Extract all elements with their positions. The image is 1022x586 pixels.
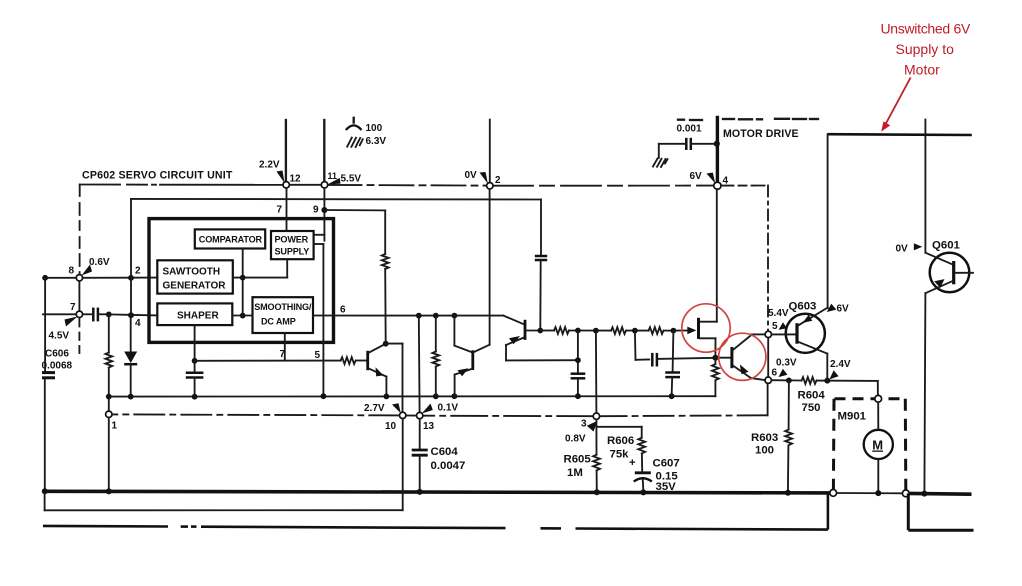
svg-text:1M: 1M: [567, 467, 583, 479]
node terminal M901 right on bus: [902, 490, 909, 497]
label R603 100: [751, 432, 778, 457]
svg-text:Motor: Motor: [904, 62, 940, 78]
svg-text:C604: C604: [431, 446, 459, 458]
svg-text:2: 2: [135, 266, 141, 277]
transistor Q601 (PNP in circle): [924, 120, 973, 495]
svg-text:C607: C607: [653, 458, 680, 470]
node 6 pin of CP602: [765, 377, 771, 383]
COMPARATOR box: [195, 229, 265, 248]
resistor (collector load of Q1): [382, 254, 389, 344]
wire: 0V feed vertical to pin 2: [489, 120, 491, 183]
wire: SAWTOOTH right to POWER SUPPLY bottom: [233, 259, 287, 277]
SMOOTHING / DC AMP box: [253, 297, 314, 333]
cut-off reference text at top edge: [678, 119, 818, 120]
svg-text:2.2V: 2.2V: [259, 160, 280, 171]
svg-text:5.4V: 5.4V: [768, 308, 789, 319]
label 0.3V 6 with arrow at pin 6: [772, 358, 797, 379]
svg-text:4: 4: [723, 176, 729, 187]
svg-text:GENERATOR: GENERATOR: [163, 281, 227, 292]
diode (cathode down): [124, 352, 137, 397]
wire: SHAPER right to SMOOTHING left: [232, 315, 252, 317]
wire: emitter bus y=396: [109, 395, 716, 397]
svg-text:5: 5: [772, 321, 778, 332]
label 100 6.3V: [366, 123, 387, 147]
svg-text:SHAPER: SHAPER: [177, 311, 219, 322]
transistor Q2 (bar style): [454, 316, 489, 397]
label 5 (IC bottom pin): [315, 350, 321, 361]
resistor R603 100: [785, 380, 792, 492]
wire: internal line to Q1 base with resistor: [195, 357, 367, 364]
svg-text:0V: 0V: [896, 244, 909, 255]
label C604 0.0047: [431, 446, 466, 472]
red circle highlight on Q5: [719, 333, 766, 380]
label 6V with arrow at pin 4: [690, 171, 729, 187]
red annotation arrow: [881, 78, 910, 132]
label 1: [112, 421, 118, 432]
svg-text:0.001: 0.001: [677, 124, 702, 135]
wire: 0.6V bus drop at x541 with capacitor: [535, 200, 547, 331]
label Q603: [789, 301, 817, 313]
svg-text:2.7V: 2.7V: [364, 403, 385, 414]
resistor (vertical, below pin7 cap junction): [105, 314, 112, 396]
junction dots on ground bus: [42, 488, 928, 496]
label 5.4V 5 with arrow at pin 5: [768, 308, 789, 332]
svg-text:1: 1: [112, 421, 118, 432]
svg-text:6.3V: 6.3V: [366, 136, 387, 147]
svg-text:+: +: [629, 457, 636, 469]
label Q601: [932, 240, 961, 252]
node 8 pin of CP602: [76, 275, 82, 281]
node 3 pin of CP602: [593, 413, 599, 419]
wire: node 7 line to the left: [43, 313, 76, 315]
IC block outline: [149, 219, 334, 343]
label C606 0.0068: [42, 349, 73, 372]
svg-text:2.4V: 2.4V: [830, 359, 851, 370]
svg-text:6V: 6V: [837, 304, 850, 315]
capacitor (series, at pin 7 line): [83, 308, 112, 322]
label 0V with arrow at Q601: [896, 243, 923, 254]
svg-text:100: 100: [366, 123, 383, 134]
svg-text:Unswitched 6V: Unswitched 6V: [881, 21, 971, 37]
wire: R605 vertical from RC chain to node 3: [595, 331, 598, 414]
wire: 6V thick feed vertical to pin 4: [716, 118, 719, 183]
label 8 0.6V with arrow at pin 8: [69, 257, 110, 277]
wire: RC filter chain line y=330.5: [537, 327, 676, 334]
svg-text:M: M: [872, 438, 883, 453]
svg-text:COMPARATOR: COMPARATOR: [199, 235, 263, 245]
node 1 pin of CP602: [106, 397, 112, 492]
svg-text:6V: 6V: [690, 171, 703, 182]
svg-text:0.3V: 0.3V: [776, 358, 797, 369]
svg-text:C606: C606: [45, 349, 69, 360]
node 11 pin of CP602: [321, 182, 327, 188]
wire: IC pin 7 from node 12 down to POWER SUPPLY: [286, 188, 288, 231]
label C607 0.15 35V: [653, 458, 680, 494]
CP602 boundary left edge (dashed, through pins 8 and 7): [78, 185, 80, 354]
ground bus A (thick bottom bus): [43, 491, 972, 494]
wire: supply feed vertical to pin 12: [285, 120, 287, 182]
POWER SUPPLY box: [271, 231, 314, 259]
wire: pin 5 vertical from POWER stub down through IC bottom: [322, 244, 324, 396]
svg-text:M901: M901: [838, 411, 867, 423]
label 6V with arrow at Q603 collector: [827, 304, 849, 315]
svg-text:0.0047: 0.0047: [431, 460, 466, 472]
wire: return line y=510 from node 10: [45, 419, 403, 511]
red circle highlight on Q4: [682, 304, 730, 352]
wire: IC pin 9 from node 11 down, junction: [321, 188, 327, 241]
capacitor 100uF 6.3V to ground (symbol near pin 11): [346, 118, 363, 147]
svg-text:9: 9: [313, 205, 319, 216]
node 2 pin of CP602: [487, 183, 493, 189]
svg-text:R605: R605: [564, 454, 592, 466]
svg-text:MOTOR DRIVE: MOTOR DRIVE: [723, 128, 799, 140]
capacitor (parallel with 3rd resistor): [635, 331, 715, 367]
wire: SMOOTHING bottom pin 7 stub: [284, 333, 286, 361]
transistor Q3 (emitter follower, bar style): [503, 316, 578, 361]
node 12 pin of CP602: [283, 182, 289, 188]
transistor Q1 (bar style NPN): [368, 341, 389, 397]
label CP602 SERVO CIRCUIT UNIT: [82, 170, 233, 182]
label M901: [838, 411, 867, 423]
svg-text:0.1V: 0.1V: [438, 403, 459, 414]
wire: POWER SUPPLY right stubs to pin 9 vertical: [314, 235, 325, 244]
node 4 pin of CP602: [714, 182, 721, 189]
capacitor (x672 to emitter bus): [665, 331, 680, 397]
wire: COMPARATOR to SAWTOOTH/SHAPER internal vertical: [240, 249, 246, 319]
svg-text:SAWTOOTH: SAWTOOTH: [163, 267, 221, 278]
capacitor C607 0.15 35V electrolytic: [629, 457, 652, 493]
wire: node 8 to junction at x45: [42, 275, 76, 281]
label 2.7V with arrow at pin 10: [364, 403, 401, 432]
label 2.4V with arrow: [829, 359, 851, 379]
svg-text:R604: R604: [798, 390, 826, 402]
label 6 (IC right pin): [340, 305, 346, 316]
wire: Q2 collector vertical to node 2: [489, 189, 491, 345]
svg-text:5.5V: 5.5V: [341, 174, 362, 185]
svg-text:6: 6: [340, 305, 346, 316]
node terminal on M901 top edge: [875, 395, 882, 402]
node 10 pin of CP602: [400, 412, 406, 418]
svg-text:7: 7: [70, 302, 76, 313]
wire: SHAPER bottom stub: [192, 325, 198, 372]
svg-text:4.5V: 4.5V: [49, 331, 70, 342]
label 7 (IC bottom pin): [280, 349, 286, 360]
label R605 1M: [564, 454, 592, 480]
svg-text:4: 4: [135, 318, 141, 329]
svg-text:8: 8: [69, 266, 75, 277]
svg-text:DC AMP: DC AMP: [261, 317, 296, 327]
svg-text:Supply to: Supply to: [896, 41, 955, 57]
label 2.2V with arrow at pin 12: [259, 160, 301, 185]
resistor (under Q4, to emitter bus): [712, 358, 719, 397]
ground for 0.001 capacitor: [653, 144, 668, 167]
wire: bottom-right step from bus: [908, 493, 973, 530]
transistor Q5 (bar style NPN): [715, 334, 765, 380]
wire: pin 2 line from node 8 into IC: [83, 275, 158, 281]
wire: pin 9 supply rail to collector resistor: [324, 210, 385, 254]
resistor R606 75k: [598, 427, 645, 472]
svg-text:5: 5: [315, 350, 321, 361]
M901 dashed enclosure: [833, 399, 905, 491]
svg-text:7: 7: [280, 349, 286, 360]
label 0.001: [677, 124, 702, 135]
label 2 (IC pin): [135, 266, 141, 277]
label 11 5.5V with arrow at pin 11: [327, 171, 361, 185]
label R604 750: [798, 390, 826, 415]
label 7 4.5V with arrow at pin 7: [49, 302, 78, 342]
wire: 0.6V bus from pin2 corner to the right: [131, 198, 541, 201]
svg-text:6: 6: [772, 368, 778, 379]
svg-text:11: 11: [328, 171, 338, 181]
svg-text:POWER: POWER: [275, 235, 309, 245]
svg-text:R603: R603: [751, 432, 778, 444]
SHAPER box: [157, 303, 232, 325]
capacitor (under SHAPER stub): [186, 373, 204, 397]
capacitor C606 0.0068: [42, 373, 55, 492]
svg-text:10: 10: [385, 421, 397, 432]
label 4 (IC pin): [135, 318, 141, 329]
wire: node 6 line with R604 to motor: [771, 377, 878, 395]
svg-text:13: 13: [423, 421, 435, 432]
svg-text:0V: 0V: [465, 170, 478, 181]
resistor (bias, x436): [432, 316, 439, 397]
label MOTOR DRIVE: [723, 128, 799, 140]
transistor Q4 (drive device, bar style with base arrow): [673, 189, 718, 361]
wire: C606 branch vertical: [44, 278, 46, 372]
svg-text:750: 750: [802, 402, 821, 414]
wire: unswitched 6V supply line: [828, 134, 972, 308]
svg-text:SUPPLY: SUPPLY: [275, 247, 310, 257]
red annotation: Unswitched 6V Supply to Motor: [881, 21, 971, 78]
svg-text:12: 12: [290, 174, 302, 185]
label 0V with arrow at pin 2: [465, 170, 502, 186]
svg-text:Q601: Q601: [932, 240, 961, 252]
wire: pin 4 line into IC: [109, 312, 158, 318]
label 9 (IC top pin): [313, 205, 319, 216]
transistor Q603 (PNP in circle): [772, 308, 828, 381]
svg-text:75k: 75k: [610, 449, 630, 461]
node 7 pin of CP602: [76, 311, 82, 317]
svg-text:100: 100: [755, 445, 774, 457]
motor M symbol: [864, 402, 893, 494]
wire: Q1 collector to node 10 vertical: [386, 344, 403, 413]
junction dots on emitter bus: [106, 393, 675, 399]
label 0.1V with arrow at pin 13: [422, 403, 459, 433]
CP602 boundary right edge (dashed, through pins 5 and 6): [600, 186, 769, 417]
svg-text:R606: R606: [607, 435, 634, 447]
svg-text:CP602 SERVO CIRCUIT UNIT: CP602 SERVO CIRCUIT UNIT: [82, 170, 233, 182]
wire: pin2/pin4 junction vertical with diode: [130, 199, 132, 351]
svg-text:0.6V: 0.6V: [89, 257, 110, 268]
node 13 pin of CP602: [417, 412, 423, 418]
capacitor (x578 to emitter bus): [571, 331, 586, 397]
CP602 boundary bottom edge (dash-dot through pins 3,13,10,1): [112, 414, 593, 416]
svg-text:3: 3: [581, 419, 587, 430]
label 7 (IC top pin): [277, 205, 283, 216]
svg-text:2: 2: [495, 175, 501, 186]
node terminal M901 left on bus: [830, 490, 837, 497]
SAWTOOTH GENERATOR box: [157, 260, 233, 293]
svg-text:Q603: Q603: [789, 301, 817, 313]
wire: pin 6 output line from SMOOTHING: [313, 313, 503, 319]
svg-text:SMOOTHING/: SMOOTHING/: [254, 302, 312, 312]
resistor R605 1M: [593, 419, 600, 492]
label 3 0.8V with arrow at pin 3: [565, 419, 598, 445]
capacitor C 0.001 decoupling: [659, 138, 720, 150]
CP602 boundary top edge (dash-dot bus through pins 12,11,2,4): [80, 185, 768, 186]
label R606 75k: [607, 435, 634, 461]
wire: node 13 vertical from pin6 line: [418, 316, 421, 413]
svg-text:0.0068: 0.0068: [42, 361, 73, 372]
svg-text:7: 7: [277, 205, 283, 216]
node 5 pin of CP602: [765, 331, 771, 337]
capacitor C604 0.0047: [412, 419, 428, 492]
wire: lower bus B (mostly solid with dashes): [43, 494, 828, 529]
wire: supply feed vertical to pin 11: [323, 120, 325, 182]
svg-text:0.8V: 0.8V: [565, 434, 586, 445]
